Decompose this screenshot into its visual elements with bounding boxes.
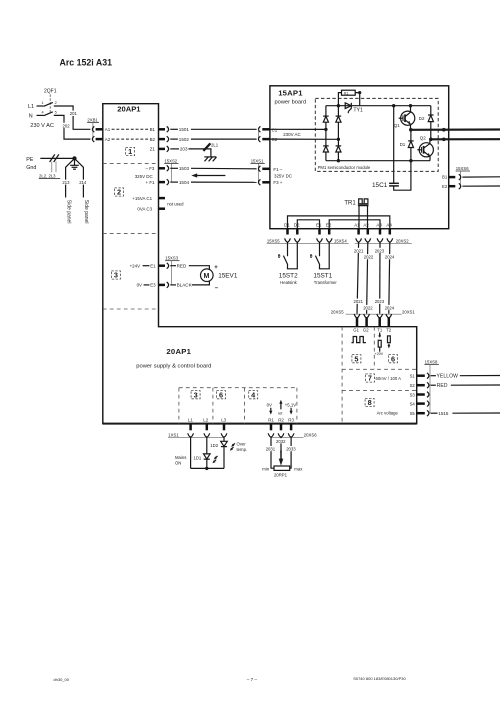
svg-text:+: + <box>214 265 218 271</box>
leader line 2L3 <box>55 162 57 173</box>
connector 2XB1 pin A1 <box>92 126 94 132</box>
terminal L2 stub <box>206 424 209 431</box>
wiper arrow <box>279 451 284 466</box>
pin A1 male stub <box>96 128 103 131</box>
connector arc 1501 <box>167 126 169 132</box>
svg-text:PE: PE <box>26 157 34 163</box>
wire C1 to bridge <box>270 128 326 130</box>
svg-text:1503: 1503 <box>179 166 190 171</box>
svg-text:20XS6: 20XS6 <box>304 433 317 438</box>
connector cup R1 <box>268 433 274 437</box>
svg-text:2024: 2024 <box>385 255 395 260</box>
svg-text:Heatsink: Heatsink <box>280 280 297 285</box>
wire L3 to 1D2 <box>223 437 225 441</box>
svg-text:230V AC: 230V AC <box>283 132 301 137</box>
svg-text:S4: S4 <box>410 402 416 407</box>
breaker pole 1 lever <box>44 102 53 106</box>
LED 1D2 <box>221 441 228 468</box>
svg-text:Side panel: Side panel <box>83 200 89 224</box>
terminal A2 stub below <box>367 229 370 235</box>
connector cup D2 <box>294 238 300 242</box>
connector arc B1 <box>459 174 461 180</box>
svg-text:not used: not used <box>167 201 184 206</box>
terminal F1 stub <box>159 181 166 184</box>
diode D2 <box>428 106 434 140</box>
svg-text:Side panel: Side panel <box>65 200 71 224</box>
wire label 2022 lower <box>363 305 373 311</box>
connector cup R2 <box>278 433 284 437</box>
svg-text:5: 5 <box>55 110 57 114</box>
svg-text:Arc 152i A31: Arc 152i A31 <box>60 58 113 68</box>
wire 1502 to 15AP1 <box>191 138 257 140</box>
transistor Q1 <box>399 106 415 130</box>
wire 201 segment <box>54 106 91 129</box>
svg-text:Over: Over <box>237 442 247 447</box>
connector cup A1 <box>356 238 362 242</box>
svg-text:+ F1: + F1 <box>146 180 156 185</box>
junction dot neg rail bridge <box>337 159 340 162</box>
transistor Q2 <box>417 139 433 160</box>
internal dashed link A1-B1 <box>112 128 149 130</box>
terminal R1 stub <box>270 424 273 431</box>
svg-text:6: 6 <box>219 390 223 399</box>
section number box 3 <box>111 271 120 280</box>
current direction arrow <box>191 173 225 177</box>
wire 0V to E3 <box>144 284 150 286</box>
svg-text:15EV1: 15EV1 <box>218 273 238 280</box>
PE wire <box>40 157 74 159</box>
connector body line C1C2 <box>257 129 259 139</box>
breaker mechanical link dashed <box>49 95 51 113</box>
connector cup A4 <box>387 238 393 242</box>
wire label 213 <box>62 180 71 185</box>
connector cup L2 <box>204 433 210 437</box>
wire to BLACK <box>170 284 176 286</box>
section separator dashed 2/3 <box>103 233 159 235</box>
svg-text:Gnd: Gnd <box>26 165 36 171</box>
terminal E1 stub below <box>318 229 321 235</box>
dashed cell divider 2 <box>212 388 214 424</box>
terminal B1 stub 15AP1 <box>449 176 456 179</box>
svg-text:2023: 2023 <box>375 248 385 253</box>
svg-text:230 V AC: 230 V AC <box>30 123 54 129</box>
terminal R3 stub <box>290 424 293 431</box>
LED 1D2 light arrows <box>230 443 235 450</box>
svg-text:15ST1: 15ST1 <box>313 272 332 279</box>
svg-text:ref.: ref. <box>278 411 284 416</box>
wire 1501 <box>170 128 178 130</box>
T1 wire down <box>379 347 381 352</box>
connector 15XS6 label <box>456 166 470 171</box>
svg-text:2: 2 <box>55 101 57 105</box>
svg-text:N: N <box>29 114 33 120</box>
connector arc F3 <box>258 179 260 185</box>
connector 15XS1 label <box>251 158 265 163</box>
svg-text:S3: S3 <box>410 392 416 397</box>
wire 1501 to 15AP1 <box>191 128 257 130</box>
svg-text:325V DC: 325V DC <box>274 174 293 179</box>
connector arc C1 <box>258 126 260 132</box>
svg-text:E2: E2 <box>442 184 448 189</box>
LED common wire <box>191 467 224 469</box>
wire 1502 <box>170 138 178 140</box>
ref arrow up <box>279 400 282 410</box>
bracket D1 to A4 <box>288 216 390 229</box>
svg-text:D1: D1 <box>400 142 406 147</box>
section number box 3 bottom <box>191 390 200 399</box>
svg-text:1: 1 <box>42 101 44 105</box>
svg-text:G2: G2 <box>363 328 369 333</box>
svg-text:15C1: 15C1 <box>372 182 388 189</box>
svg-text:ON: ON <box>175 461 181 466</box>
svg-text:+24V: +24V <box>130 263 141 268</box>
dashed section divider vertical main <box>341 327 343 424</box>
svg-text:15XS6: 15XS6 <box>456 166 469 171</box>
wire B1 out <box>462 176 500 178</box>
svg-text:6: 6 <box>391 354 395 363</box>
svg-text:YELLOW: YELLOW <box>437 374 459 380</box>
svg-text:A2: A2 <box>105 137 111 142</box>
svg-text:2033: 2033 <box>286 447 296 452</box>
chassis ground symbol <box>204 157 216 161</box>
svg-text:1D2: 1D2 <box>210 443 218 448</box>
terminal T2 stub <box>388 318 391 327</box>
svg-text:0V: 0V <box>137 283 142 288</box>
wire 2023 A3 down <box>379 242 381 314</box>
terminal C1 stub <box>159 197 166 200</box>
connector cup T1 <box>377 314 383 318</box>
svg-text:A1: A1 <box>105 127 111 132</box>
wire 2024 A4 down <box>389 242 390 314</box>
connector cup L1 <box>188 433 194 437</box>
svg-text:20AP1: 20AP1 <box>166 347 191 356</box>
connector cup A3 <box>377 238 383 242</box>
svg-text:2QF1: 2QF1 <box>44 89 57 95</box>
svg-text:R1: R1 <box>344 92 348 96</box>
wire label RED <box>431 384 436 386</box>
negative rail bottom <box>326 160 430 162</box>
thermostat 15ST2 <box>283 242 297 269</box>
wire label 201 <box>69 111 78 117</box>
svg-text:D2: D2 <box>294 223 300 228</box>
dashed divider horizontal 8 <box>342 390 417 392</box>
svg-text:D2: D2 <box>419 116 425 121</box>
bridge diode bottom-left <box>323 146 329 152</box>
svg-text:5: 5 <box>354 354 358 363</box>
bridge left column wires <box>325 106 327 161</box>
terminal Z1 stub <box>159 148 166 151</box>
section number box 6 bottom <box>217 390 226 399</box>
wire label 214 <box>79 180 87 185</box>
wire 1504 to 15AP1 <box>191 181 257 183</box>
wire S5 out <box>452 412 500 414</box>
svg-text:1501: 1501 <box>179 127 190 132</box>
terminal S4 stub <box>417 402 425 405</box>
terminal C3 stub <box>159 207 166 210</box>
svg-text:R1: R1 <box>268 417 274 422</box>
svg-text:dh30_00: dh30_00 <box>53 677 69 682</box>
svg-text:A1: A1 <box>354 223 360 228</box>
svg-text:2024: 2024 <box>385 306 395 311</box>
connector body line F1F3 <box>257 163 259 182</box>
svg-text:1504: 1504 <box>179 180 190 185</box>
capacitor 15C1 feed wire <box>393 106 395 184</box>
wire L1 into breaker <box>37 105 44 107</box>
wire 1503 to 15AP1 <box>191 167 257 170</box>
svg-text:214: 214 <box>79 180 87 185</box>
section number box 6 <box>389 354 398 363</box>
svg-text:15XS5: 15XS5 <box>267 238 280 243</box>
wire label 2021 lower <box>353 299 363 305</box>
svg-text:L3: L3 <box>221 417 226 422</box>
terminal G2 stub <box>365 318 368 327</box>
svg-text:R2: R2 <box>278 417 284 422</box>
module PM1 dashed outline <box>315 98 438 171</box>
resistor branch wire up <box>338 93 341 106</box>
svg-text:20XS1: 20XS1 <box>402 310 415 315</box>
svg-text:F1 –: F1 – <box>273 167 282 172</box>
connector 2XB1 pin A2 <box>92 136 94 142</box>
wire label 2033 <box>286 446 296 452</box>
dashed cell divider right <box>296 388 298 424</box>
connector cup E1 <box>317 238 323 242</box>
terminal C2 stub <box>262 138 270 141</box>
+5,1V arrow down <box>290 408 293 415</box>
junction dot line2 D2 <box>429 138 433 142</box>
section number box 4 bottom <box>249 390 258 399</box>
svg-text:20XS2: 20XS2 <box>396 238 409 243</box>
svg-text:S2: S2 <box>410 383 416 388</box>
terminal B2 stub <box>159 138 166 141</box>
0V arrow down <box>269 408 272 415</box>
svg-text:2023: 2023 <box>375 299 385 304</box>
wire N into breaker <box>37 114 44 116</box>
junction dot rail cap <box>392 104 395 107</box>
svg-text:15XS3: 15XS3 <box>165 256 178 261</box>
wire 202 segment <box>54 115 91 139</box>
svg-text:T1: T1 <box>377 328 383 333</box>
connector cup L3 <box>221 433 227 437</box>
svg-text:202: 202 <box>63 123 71 128</box>
wire label 2031 <box>265 446 275 452</box>
potentiometer 20RP1 <box>274 466 290 470</box>
dashed cell top <box>179 387 297 389</box>
connector 15XS6 body line <box>459 171 461 186</box>
terminal D1 stub below <box>286 229 289 235</box>
svg-text:Q1: Q1 <box>394 123 400 128</box>
svg-text:15ST2: 15ST2 <box>279 272 298 279</box>
svg-text:2L2, 2L3: 2L2, 2L3 <box>39 174 56 179</box>
junction dot neg rail D1 <box>409 159 412 162</box>
wire 203 <box>170 148 179 150</box>
gate pulse waveform <box>352 337 366 343</box>
svg-text:power board: power board <box>275 99 307 105</box>
svg-text:15XS2: 15XS2 <box>164 158 177 163</box>
junction dot rail bridge <box>337 104 340 107</box>
svg-text:min: min <box>262 466 269 471</box>
svg-text:2: 2 <box>117 188 121 197</box>
svg-text:20XS5: 20XS5 <box>331 310 344 315</box>
wire 203 to ferrite <box>189 149 211 157</box>
wire 213 to side panel <box>66 158 75 197</box>
transformer TR1 <box>358 199 369 229</box>
wire E2 out <box>462 185 500 187</box>
connector strip line right <box>355 242 412 244</box>
svg-text:Arc voltage: Arc voltage <box>377 410 399 415</box>
svg-text:– 7 –: – 7 – <box>247 677 258 682</box>
terminal R2 stub <box>280 424 283 431</box>
svg-text:E1: E1 <box>316 223 322 228</box>
svg-text:B2: B2 <box>150 137 156 142</box>
terminal E1 stub <box>159 264 166 267</box>
svg-text:– F3: – F3 <box>146 166 155 171</box>
earth ground symbol <box>70 158 79 169</box>
terminal T1 stub <box>378 318 381 327</box>
svg-text:2031: 2031 <box>266 447 276 452</box>
section number box 7 <box>365 374 374 383</box>
connector strip 20XS6 <box>271 437 303 439</box>
wire S1 out <box>460 375 500 377</box>
svg-text:C1: C1 <box>272 128 278 133</box>
svg-text:D1: D1 <box>284 223 290 228</box>
bridge right column wires <box>337 106 339 161</box>
svg-text:S5: S5 <box>410 411 416 416</box>
wire L2 to 1D1 <box>206 437 208 454</box>
T1 resistor <box>378 340 381 347</box>
svg-text:T2: T2 <box>386 328 392 333</box>
connector 15XS8 body line <box>429 365 431 414</box>
svg-text:M: M <box>204 273 210 280</box>
terminal S2 stub <box>417 384 425 387</box>
wire R3 to pot <box>290 437 291 468</box>
positive rail top <box>326 105 431 107</box>
T2 arrow down <box>388 344 391 349</box>
connector cup G1 <box>354 314 360 318</box>
svg-text:3: 3 <box>194 390 198 399</box>
wire label 2021 upper <box>354 248 364 254</box>
svg-text:1D1: 1D1 <box>194 455 202 460</box>
connector 2XB1 body line <box>92 123 94 140</box>
connector 15XS2 label <box>164 158 178 163</box>
ferrite slash 2L3 <box>54 154 59 162</box>
svg-text:2032: 2032 <box>276 439 286 444</box>
thyristor TY1 <box>345 103 351 113</box>
connector arc 203 <box>167 146 169 152</box>
svg-text:θ: θ <box>278 254 281 260</box>
svg-text:Z1: Z1 <box>150 147 156 152</box>
junction dot PE <box>72 156 76 160</box>
svg-text:temp.: temp. <box>237 447 248 452</box>
svg-text:203: 203 <box>180 147 188 152</box>
svg-text:B1: B1 <box>150 127 156 132</box>
wire label 2024 lower <box>384 305 394 311</box>
wire L1 down <box>190 437 192 468</box>
resistor branch wire down <box>355 93 360 106</box>
terminal E2 stub below <box>328 229 331 235</box>
motor 15EV1 circle <box>201 269 214 282</box>
terminal A3 stub below <box>379 229 382 235</box>
terminal A4 stub below <box>389 229 392 235</box>
svg-text:G1: G1 <box>353 328 359 333</box>
svg-text:B1: B1 <box>442 175 448 180</box>
output line 2 <box>431 138 500 140</box>
connector arc E3 <box>167 282 169 288</box>
terminal E3 stub <box>159 284 166 287</box>
bridge diode top-right <box>336 116 342 122</box>
terminal D2 stub below <box>296 229 299 235</box>
connector cup R3 <box>288 433 294 437</box>
terminal F3 stub <box>262 181 270 184</box>
svg-text:20AP1: 20AP1 <box>117 105 141 114</box>
section number box 8 <box>365 398 374 407</box>
capacitor return wire <box>394 161 411 191</box>
terminal G1 stub <box>356 318 359 327</box>
svg-text:15XS1: 15XS1 <box>251 158 264 163</box>
svg-text:0VA C3: 0VA C3 <box>137 206 152 211</box>
connector arc S4 <box>427 401 429 407</box>
svg-text:E2: E2 <box>326 223 332 228</box>
svg-text:E3: E3 <box>150 283 156 288</box>
svg-text:+15VA C1: +15VA C1 <box>132 196 152 201</box>
output line 1 <box>411 128 500 131</box>
connector arc S5 <box>427 410 429 416</box>
svg-text:4: 4 <box>42 110 44 114</box>
connector 15XS3 label <box>165 256 180 261</box>
wire S5 to label <box>431 412 438 414</box>
connector cup G2 <box>364 314 370 318</box>
svg-text:Transformer: Transformer <box>314 280 338 285</box>
thermostat 15ST1 <box>315 242 329 269</box>
section number box 5 <box>352 354 361 363</box>
connector arc 1504 <box>167 179 169 185</box>
dashed divider horizontal 7 <box>342 368 417 370</box>
junction dot line1 Q1 <box>409 128 413 132</box>
svg-text:F3 +: F3 + <box>273 180 282 185</box>
svg-text:1: 1 <box>128 147 132 156</box>
wire RED to motor <box>189 266 210 270</box>
svg-text:15XS8: 15XS8 <box>425 359 438 364</box>
section separator dashed 1/2 <box>103 163 159 165</box>
junction dot LED <box>205 467 208 470</box>
svg-text:R3: R3 <box>288 417 294 422</box>
svg-text:201: 201 <box>70 111 78 116</box>
svg-text:1XS1: 1XS1 <box>168 433 179 438</box>
terminal A1 stub below <box>357 229 360 235</box>
wire BLACK to motor <box>192 281 210 285</box>
svg-text:S0740 800 183/E080130/P30: S0740 800 183/E080130/P30 <box>353 676 406 681</box>
connector arc S1 <box>427 373 429 379</box>
terminal S1 stub <box>417 374 425 377</box>
section number box 1 <box>126 147 135 156</box>
junction dot line1 right <box>442 128 446 132</box>
svg-text:2021: 2021 <box>354 248 364 253</box>
board 20AP1 outline <box>103 104 417 424</box>
wire +24V to E1 <box>143 265 150 267</box>
connector cup T2 <box>386 314 392 318</box>
svg-text:8: 8 <box>368 398 372 407</box>
svg-text:power supply & control board: power supply & control board <box>136 363 211 369</box>
terminal S5 stub <box>417 412 425 415</box>
svg-text:L1: L1 <box>188 417 193 422</box>
svg-text:E1: E1 <box>150 263 156 268</box>
connector arc F1 <box>258 166 260 172</box>
connector 15XS2 body line <box>171 163 173 182</box>
svg-text:0V: 0V <box>267 403 272 408</box>
svg-text:TR1: TR1 <box>344 200 356 206</box>
svg-text:2022: 2022 <box>364 255 374 260</box>
internal dashed link A2-B2 <box>112 138 149 140</box>
connector arc E2 <box>459 183 461 189</box>
